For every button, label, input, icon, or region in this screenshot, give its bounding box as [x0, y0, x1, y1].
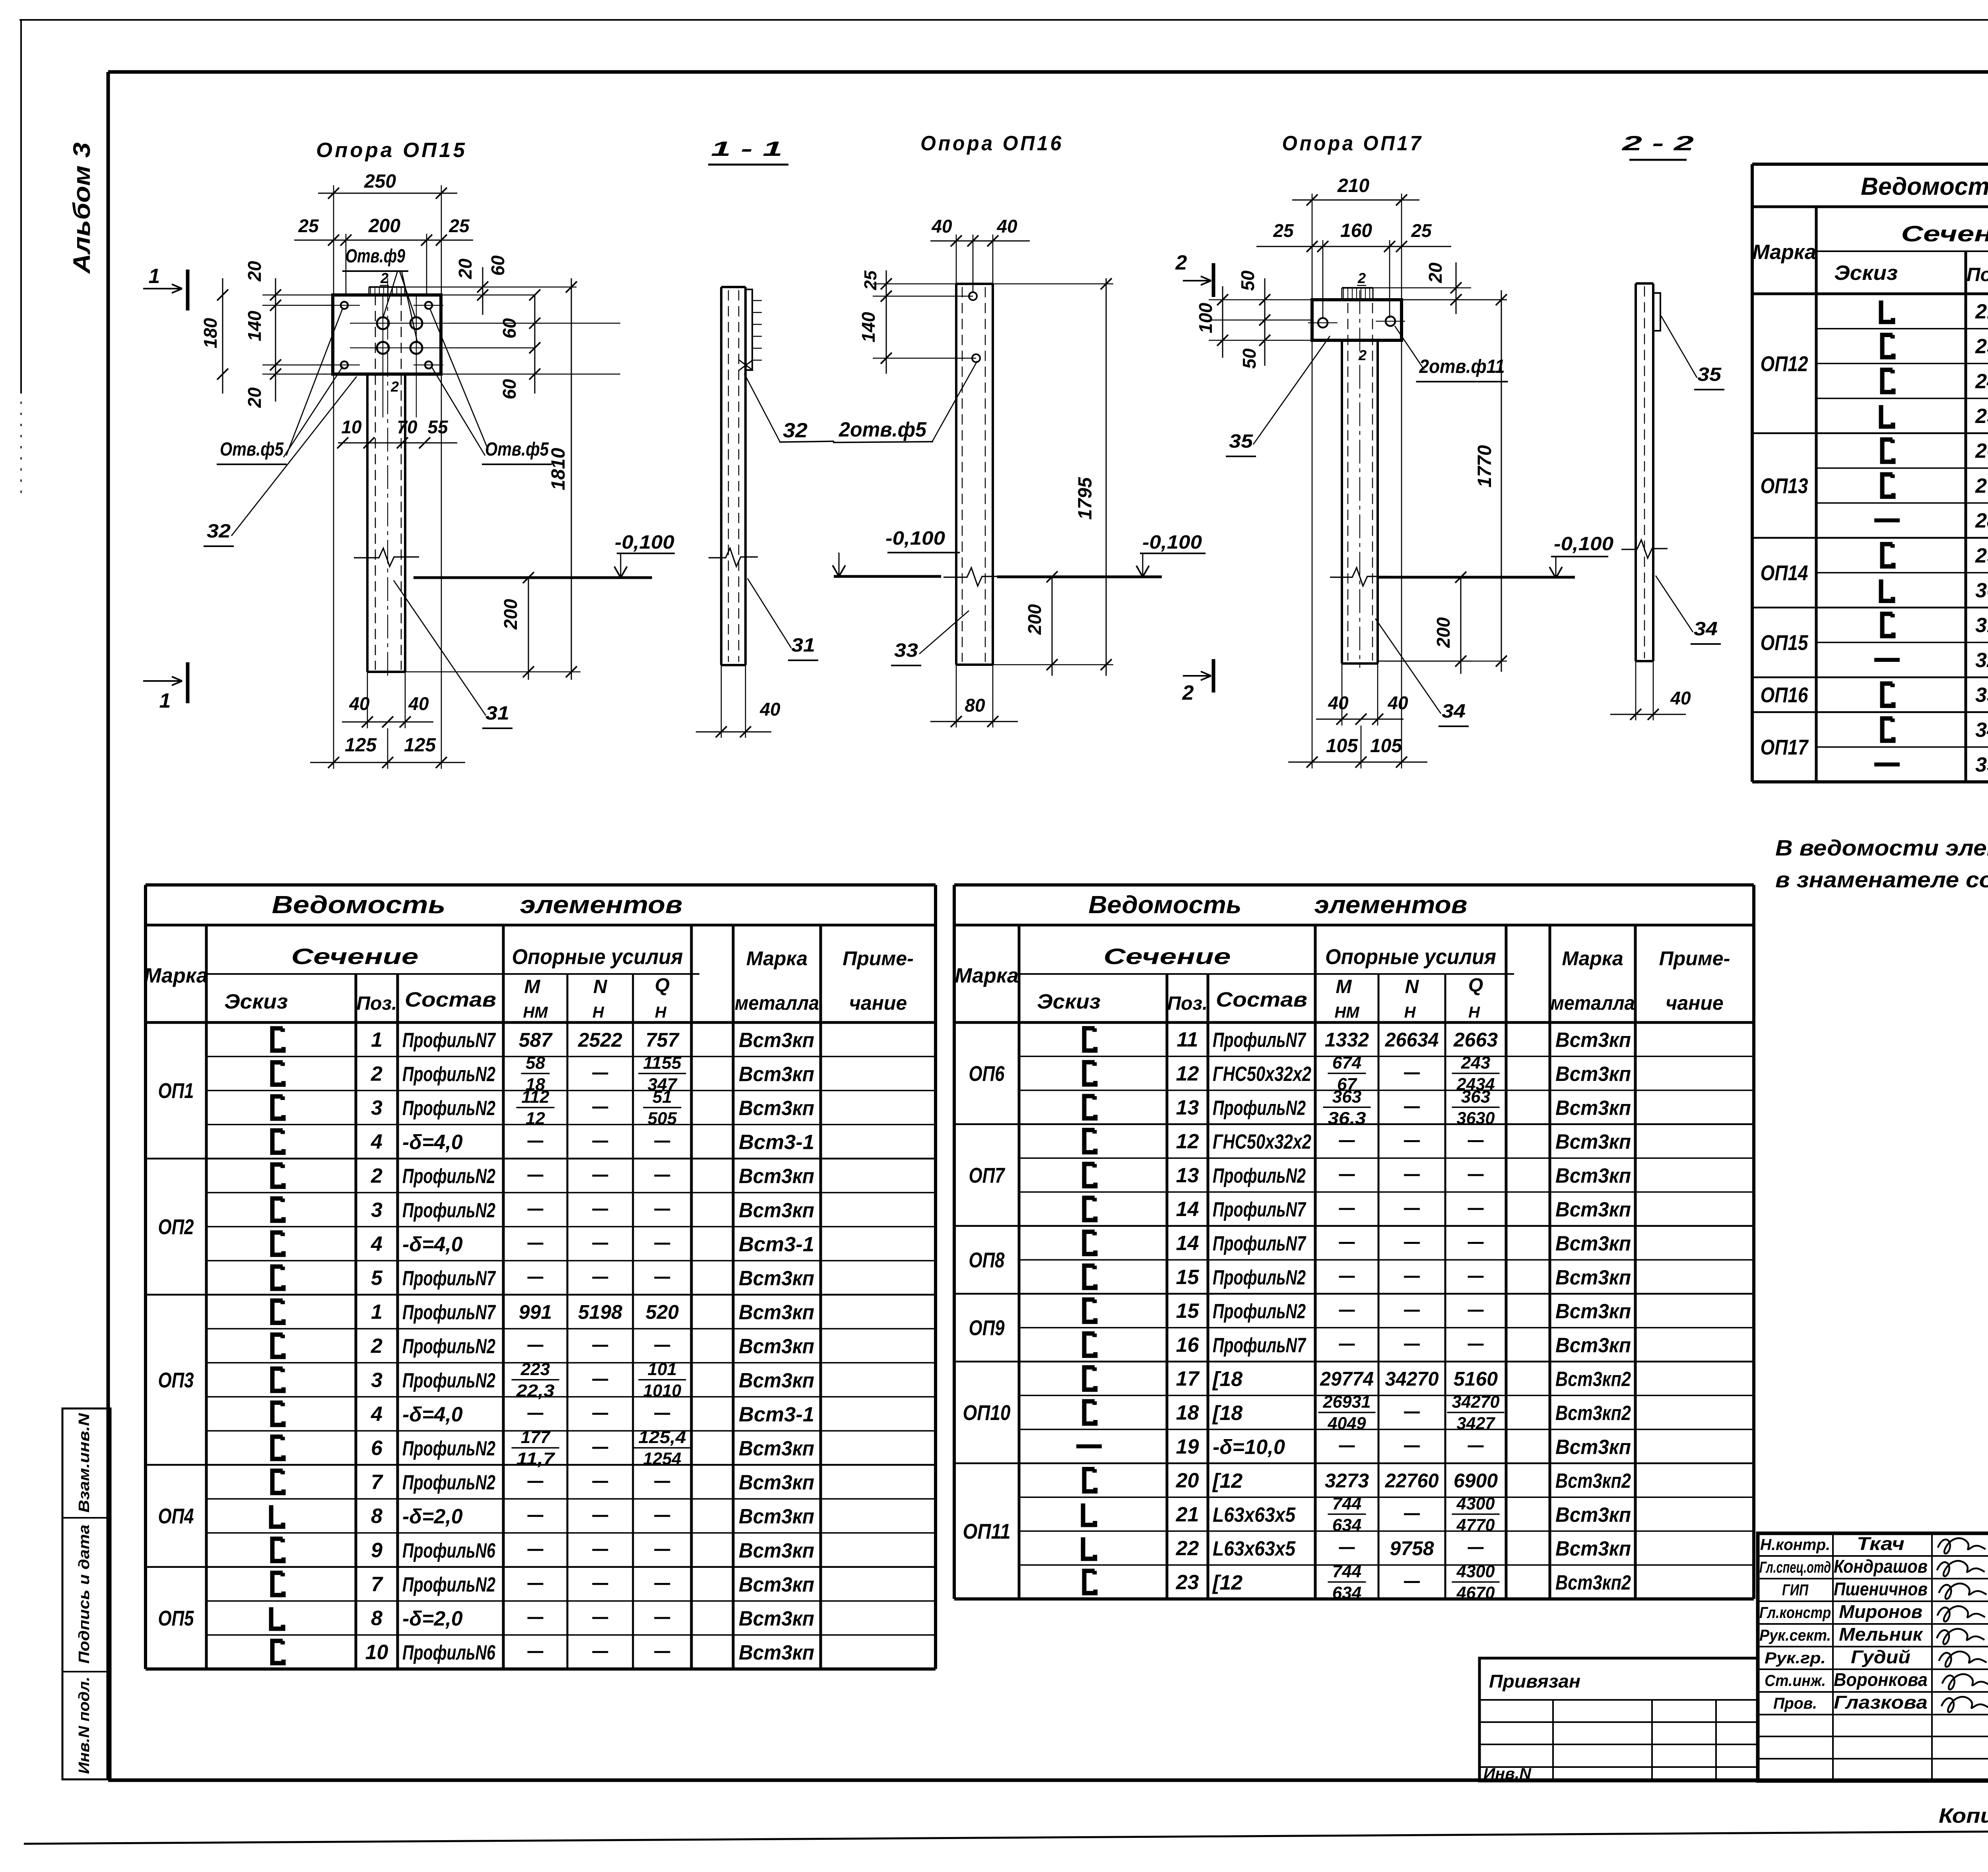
- svg-text:51: 51: [652, 1087, 672, 1107]
- svg-text:12: 12: [1176, 1130, 1199, 1153]
- svg-text:4: 4: [371, 1403, 382, 1426]
- svg-text:140: 140: [858, 312, 879, 342]
- table C row poz 32: [1816, 642, 1988, 672]
- svg-text:ОП6: ОП6: [969, 1062, 1005, 1086]
- support OP15 hole label Otv.f9 with leaders: [342, 246, 417, 343]
- svg-text:40: 40: [1387, 693, 1408, 713]
- svg-text:223: 223: [520, 1360, 550, 1379]
- svg-text:2: 2: [371, 1335, 382, 1358]
- section 2-2 flange tab: [1653, 293, 1660, 331]
- svg-text:ОП8: ОП8: [969, 1248, 1005, 1272]
- svg-text:7: 7: [371, 1471, 383, 1494]
- support OP15 break symbol: [354, 548, 419, 566]
- svg-text:Вст3кп: Вст3кп: [739, 1301, 814, 1324]
- svg-text:1 - 1: 1 - 1: [711, 138, 782, 161]
- table A row poz 4: [206, 1227, 936, 1256]
- svg-text:Эскиз: Эскиз: [224, 990, 288, 1013]
- svg-text:25: 25: [1975, 405, 1988, 428]
- svg-text:25: 25: [448, 215, 470, 236]
- svg-text:Опора ОП17: Опора ОП17: [1282, 132, 1423, 155]
- svg-text:Отв.ф9: Отв.ф9: [346, 246, 405, 267]
- svg-text:ОП13: ОП13: [1761, 474, 1808, 498]
- svg-text:32: 32: [783, 419, 808, 442]
- support OP15 part label 32: [204, 376, 357, 546]
- left margin stamp boxes: [62, 1408, 111, 1779]
- svg-text:31: 31: [485, 703, 509, 724]
- sheet outer border left: [20, 20, 22, 394]
- svg-text:1: 1: [371, 1028, 382, 1051]
- support OP17 part label 35: [1226, 336, 1330, 456]
- support OP15 small 2 labels: [380, 270, 399, 395]
- svg-text:чание: чание: [1666, 992, 1724, 1014]
- support OP15 right dim chain 60 60: [441, 289, 620, 400]
- table A row poz 9: [206, 1533, 936, 1562]
- table B row poz 14: [1084, 1232, 1631, 1255]
- svg-text:24: 24: [1975, 370, 1988, 393]
- stamp row Рук.гр.: [1765, 1647, 1988, 1667]
- sheet bottom copy line: [24, 1828, 1988, 1844]
- svg-text:2: 2: [1175, 251, 1187, 274]
- section 1-1 flange tab with weld ticks: [745, 289, 762, 370]
- svg-text:26931: 26931: [1323, 1392, 1371, 1412]
- support OP15 dim 10 70 55: [337, 417, 457, 448]
- svg-text:N: N: [593, 976, 608, 997]
- svg-text:34270: 34270: [1452, 1392, 1500, 1412]
- svg-text:Взам.инв.N: Взам.инв.N: [76, 1412, 93, 1513]
- support OP15 column top tab with hatch: [369, 287, 405, 295]
- table C header: [1752, 221, 1988, 293]
- table B frame: [954, 885, 1754, 1599]
- svg-text:-δ=4,0: -δ=4,0: [402, 1403, 463, 1426]
- support OP17 hidden edges: [1348, 303, 1373, 661]
- svg-text:Ведомость: Ведомость: [1861, 173, 1988, 200]
- table A row poz 7: [272, 1573, 814, 1596]
- svg-text:-δ=4,0: -δ=4,0: [402, 1131, 463, 1154]
- support OP15 dim 250: [318, 171, 457, 295]
- svg-text:200: 200: [1433, 617, 1454, 648]
- svg-text:1: 1: [159, 689, 171, 712]
- table A row poz 1: [272, 1028, 814, 1052]
- table A row poz 7: [272, 1471, 814, 1494]
- svg-text:металла: металла: [1551, 992, 1635, 1014]
- svg-text:10: 10: [341, 417, 362, 437]
- support OP17 small 2 labels: [1357, 270, 1367, 363]
- section 2-2 title: [1621, 132, 1694, 160]
- table B row poz 23: [1019, 1562, 1754, 1602]
- section 1-1 part label 31: [747, 578, 818, 660]
- svg-text:Гудий: Гудий: [1851, 1647, 1910, 1667]
- table B row poz 14: [1019, 1192, 1754, 1222]
- support OP15 bottom dim 125 125: [310, 374, 465, 769]
- table A header: [144, 944, 914, 1021]
- svg-text:31: 31: [1975, 614, 1988, 637]
- svg-text:ПрофильN2: ПрофильN2: [402, 1165, 495, 1188]
- table C group ОП12: [1761, 352, 1808, 376]
- svg-text:ПрофильN2: ПрофильN2: [402, 1199, 495, 1222]
- svg-text:757: 757: [646, 1029, 680, 1051]
- svg-text:Марка: Марка: [955, 964, 1019, 987]
- svg-text:Н: Н: [655, 1004, 667, 1021]
- table B row poz 16: [1019, 1328, 1754, 1357]
- svg-text:40: 40: [1670, 688, 1691, 708]
- svg-text:Сечение: Сечение: [291, 944, 419, 969]
- svg-text:Поз.: Поз.: [1967, 264, 1988, 285]
- svg-text:Мельник: Мельник: [1839, 1624, 1924, 1645]
- table C row poz 35: [1816, 747, 1988, 777]
- svg-text:Кондрашов: Кондрашов: [1834, 1556, 1928, 1577]
- stamp row ГИП: [1782, 1579, 1988, 1599]
- svg-text:10: 10: [365, 1641, 388, 1664]
- svg-text:2: 2: [371, 1062, 382, 1085]
- svg-text:ОП1: ОП1: [158, 1079, 194, 1103]
- support OP15 centerline: [387, 278, 388, 676]
- svg-text:25: 25: [298, 215, 319, 236]
- table A row poz 2: [272, 1164, 814, 1188]
- support OP15 part label 31: [394, 580, 513, 728]
- table C group ОП15: [1752, 607, 1988, 655]
- svg-text:1795: 1795: [1075, 477, 1096, 520]
- svg-text:Н: Н: [1468, 1004, 1480, 1021]
- svg-text:26: 26: [1975, 440, 1988, 463]
- svg-text:Вст3кп: Вст3кп: [1555, 1096, 1631, 1119]
- svg-text:3427: 3427: [1457, 1414, 1496, 1433]
- svg-text:29: 29: [1975, 544, 1988, 567]
- svg-text:21: 21: [1975, 300, 1988, 323]
- table B title: [1089, 891, 1468, 919]
- svg-text:ПрофильN7: ПрофильN7: [1213, 1198, 1307, 1221]
- svg-text:7: 7: [371, 1573, 383, 1596]
- svg-text:33: 33: [1975, 684, 1988, 707]
- svg-text:Вст3кп: Вст3кп: [739, 1097, 814, 1120]
- svg-text:ОП10: ОП10: [963, 1401, 1011, 1425]
- table C row poz 31: [1882, 614, 1988, 637]
- svg-text:210: 210: [1337, 175, 1369, 196]
- table C row poz 27: [1816, 468, 1988, 498]
- support OP15 dim 1810: [548, 278, 577, 680]
- table B header: [955, 944, 1730, 1021]
- table C group ОП13: [1752, 433, 1988, 498]
- svg-text:ОП16: ОП16: [1761, 683, 1809, 707]
- table C row poz 29: [1882, 544, 1988, 568]
- svg-text:Рук.гр.: Рук.гр.: [1765, 1649, 1826, 1667]
- svg-text:ПрофильN2: ПрофильN2: [402, 1437, 495, 1460]
- svg-text:Вст3кп: Вст3кп: [739, 1063, 814, 1086]
- support OP17 column top tab with hatch: [1342, 288, 1373, 300]
- svg-text:34270: 34270: [1385, 1368, 1439, 1390]
- privyazan box: [1479, 1658, 1758, 1782]
- svg-text:112: 112: [521, 1087, 549, 1107]
- svg-text:Вст3кп: Вст3кп: [739, 1369, 814, 1392]
- svg-text:3: 3: [371, 1369, 382, 1392]
- svg-text:20: 20: [244, 387, 265, 408]
- svg-text:363: 363: [1461, 1087, 1490, 1106]
- table B row poz 15: [1019, 1260, 1754, 1289]
- table B row poz 12: [1084, 1130, 1631, 1154]
- svg-text:1: 1: [371, 1301, 382, 1324]
- svg-text:3273: 3273: [1325, 1470, 1369, 1492]
- svg-text:чание: чание: [849, 992, 907, 1014]
- svg-text:Вст3кп: Вст3кп: [1555, 1436, 1631, 1459]
- svg-text:40: 40: [759, 699, 780, 720]
- svg-text:ПрофильN7: ПрофильN7: [402, 1301, 496, 1324]
- svg-text:23: 23: [1975, 335, 1988, 358]
- support OP17 part label 34: [1375, 619, 1469, 726]
- svg-text:Пшеничнов: Пшеничнов: [1834, 1579, 1928, 1599]
- svg-text:25: 25: [861, 270, 880, 290]
- support OP17 break symbol: [1330, 568, 1390, 586]
- svg-text:-δ=4,0: -δ=4,0: [402, 1233, 463, 1256]
- svg-text:Вст3-1: Вст3-1: [739, 1233, 814, 1256]
- svg-text:ПрофильN2: ПрофильN2: [402, 1573, 495, 1596]
- table A row poz 3: [206, 1193, 936, 1222]
- support OP16 left dim chain 25 140: [858, 270, 976, 374]
- svg-text:15: 15: [1176, 1266, 1200, 1289]
- svg-text:100: 100: [1195, 303, 1216, 333]
- svg-text:6900: 6900: [1454, 1470, 1498, 1492]
- table B group ОП11: [954, 1463, 1754, 1544]
- table C row poz 30: [1816, 570, 1988, 611]
- svg-text:Вст3кп: Вст3кп: [1555, 1503, 1631, 1527]
- table C row poz 25: [1816, 398, 1988, 428]
- svg-text:Вст3кп: Вст3кп: [1555, 1537, 1631, 1560]
- section 1-1 dim 40: [696, 665, 780, 738]
- svg-text:Q: Q: [1468, 975, 1483, 996]
- support OP15 column hidden edges: [375, 295, 401, 670]
- support OP17 centerline: [1359, 290, 1360, 668]
- svg-text:Поз.: Поз.: [357, 993, 397, 1014]
- support OP15 ground line: [414, 576, 652, 579]
- support OP15 left dim chain 20 140 20: [244, 261, 333, 408]
- table C row poz 33: [1882, 684, 1988, 707]
- svg-text:Подпись и дата: Подпись и дата: [76, 1525, 93, 1664]
- svg-text:12: 12: [526, 1109, 545, 1128]
- title block stamp frame: [1758, 1533, 1988, 1781]
- svg-text:ГНС50x32x2: ГНС50x32x2: [1213, 1131, 1311, 1154]
- svg-text:Вст3кп: Вст3кп: [739, 1029, 814, 1052]
- svg-text:ПрофильN7: ПрофильN7: [1213, 1029, 1307, 1052]
- svg-text:элементов: элементов: [520, 891, 683, 919]
- svg-text:32: 32: [1975, 649, 1988, 672]
- svg-text:ГНС50x32x2: ГНС50x32x2: [1213, 1063, 1311, 1086]
- table A group ОП1: [158, 1079, 194, 1103]
- svg-text:L63x63x5: L63x63x5: [1213, 1537, 1296, 1560]
- svg-text:11: 11: [1177, 1028, 1198, 1051]
- svg-text:ПрофильN6: ПрофильN6: [402, 1641, 496, 1664]
- svg-text:Гл.спец.отд: Гл.спец.отд: [1759, 1559, 1831, 1576]
- svg-text:40: 40: [996, 216, 1017, 237]
- table C frame: [1752, 164, 1988, 782]
- svg-text:21: 21: [1176, 1503, 1199, 1526]
- svg-text:50: 50: [1237, 270, 1258, 291]
- svg-text:-0,100: -0,100: [885, 528, 945, 549]
- table B row poz 13: [1019, 1087, 1754, 1128]
- table A row poz 8: [206, 1601, 936, 1630]
- stamp row Гл.констр: [1759, 1601, 1988, 1622]
- svg-text:22,3: 22,3: [516, 1381, 554, 1401]
- table A group ОП3: [146, 1295, 936, 1392]
- table C row poz 23: [1816, 326, 1988, 367]
- svg-text:60: 60: [499, 379, 520, 400]
- svg-text:Ст.инж.: Ст.инж.: [1765, 1672, 1826, 1690]
- svg-text:ОП11: ОП11: [963, 1520, 1011, 1544]
- svg-text:744: 744: [1332, 1562, 1361, 1581]
- svg-text:Ведомость: Ведомость: [1089, 891, 1242, 919]
- svg-text:30: 30: [1975, 579, 1988, 602]
- support OP17 cross plate: [1312, 300, 1402, 340]
- svg-text:200: 200: [368, 215, 400, 237]
- svg-text:Марка: Марка: [144, 964, 208, 987]
- section 1-1 ground line: [834, 575, 941, 578]
- table B row poz 17: [1084, 1368, 1631, 1391]
- stamp row Рук.сект.: [1759, 1624, 1988, 1645]
- svg-text:1155: 1155: [643, 1053, 682, 1073]
- section 1-1 break symbol: [709, 548, 758, 566]
- svg-text:2: 2: [1357, 270, 1366, 286]
- svg-text:991: 991: [519, 1301, 552, 1323]
- svg-text:Вст3кп: Вст3кп: [1555, 1198, 1631, 1221]
- table C row poz 24: [1816, 363, 1988, 393]
- svg-text:Вст3кп: Вст3кп: [1555, 1300, 1631, 1323]
- support OP15 hole label Otv.f5 right: [430, 309, 552, 464]
- support OP16 top dim 40 40: [930, 216, 1030, 292]
- svg-text:ПрофильN2: ПрофильN2: [1213, 1164, 1306, 1187]
- svg-text:125,4: 125,4: [639, 1428, 686, 1447]
- table A row poz 6: [206, 1428, 936, 1469]
- svg-text:ОП9: ОП9: [969, 1316, 1005, 1340]
- support OP15 dim 180: [200, 278, 228, 394]
- support OP16 break symbol: [944, 568, 1006, 586]
- svg-text:20: 20: [244, 261, 265, 282]
- svg-text:Приме-: Приме-: [1659, 947, 1730, 970]
- support OP16 part label 33: [891, 611, 969, 665]
- svg-text:1770: 1770: [1474, 445, 1495, 487]
- svg-text:3: 3: [371, 1199, 382, 1222]
- support OP17 dim 210: [1292, 175, 1419, 300]
- table C group ОП17: [1752, 712, 1988, 759]
- svg-text:Ведомость: Ведомость: [272, 891, 446, 919]
- support OP16 column: [956, 284, 993, 665]
- svg-text:8: 8: [371, 1607, 382, 1630]
- svg-text:ПрофильN7: ПрофильN7: [1213, 1232, 1307, 1255]
- svg-text:Отв.ф5: Отв.ф5: [485, 439, 549, 460]
- svg-text:15: 15: [1176, 1300, 1200, 1323]
- svg-text:ПрофильN7: ПрофильN7: [402, 1029, 496, 1052]
- support OP17 dim 1770: [1378, 290, 1507, 672]
- svg-text:Вст3-1: Вст3-1: [739, 1403, 814, 1426]
- svg-text:25: 25: [1411, 220, 1432, 241]
- svg-text:13: 13: [1176, 1096, 1199, 1119]
- svg-text:40: 40: [1328, 693, 1349, 713]
- svg-text:Вст3кп: Вст3кп: [739, 1641, 814, 1664]
- table A row poz 1: [272, 1301, 814, 1324]
- section 2-2 column bar: [1636, 283, 1653, 661]
- svg-text:140: 140: [244, 310, 265, 341]
- svg-text:Глазкова: Глазкова: [1834, 1692, 1928, 1713]
- table B row poz 13: [1019, 1158, 1754, 1187]
- svg-text:ПрофильN2: ПрофильN2: [402, 1369, 495, 1392]
- section 2-2 break symbol: [1621, 540, 1668, 558]
- svg-text:М: М: [524, 976, 541, 997]
- svg-text:2отв.ф5: 2отв.ф5: [839, 418, 927, 441]
- support OP15 small holes f5: [326, 302, 443, 369]
- svg-text:Вст3кп: Вст3кп: [1555, 1029, 1631, 1052]
- svg-text:Н: Н: [592, 1004, 604, 1021]
- svg-text:200: 200: [500, 599, 521, 630]
- table A frame: [146, 885, 936, 1669]
- svg-text:-δ=2,0: -δ=2,0: [402, 1505, 463, 1528]
- table C row poz 26: [1882, 440, 1988, 463]
- table B row poz 19: [1019, 1430, 1754, 1459]
- svg-text:Сечение: Сечение: [1901, 221, 1988, 246]
- section 1-1 part label 32: [739, 360, 834, 442]
- stamp signature rows grid: [1758, 1533, 1988, 1781]
- support OP17 left dim chain 50 100 50: [1195, 270, 1312, 369]
- svg-text:34: 34: [1442, 701, 1466, 722]
- svg-text:Вст3кп2: Вст3кп2: [1555, 1571, 1631, 1594]
- svg-text:28: 28: [1975, 509, 1988, 532]
- support OP17 bottom dim 40 40: [1316, 663, 1408, 726]
- table A group ОП2: [146, 1158, 936, 1239]
- svg-text:18: 18: [1176, 1401, 1199, 1424]
- svg-text:N: N: [1405, 976, 1419, 997]
- svg-text:4300: 4300: [1456, 1562, 1495, 1581]
- svg-text:ОП7: ОП7: [969, 1164, 1006, 1187]
- svg-text:520: 520: [646, 1301, 679, 1323]
- svg-text:Инв.N подл.: Инв.N подл.: [76, 1677, 93, 1774]
- svg-text:Гл.констр: Гл.констр: [1759, 1604, 1831, 1622]
- table A group ОП4: [146, 1465, 936, 1528]
- svg-text:5160: 5160: [1454, 1368, 1498, 1390]
- svg-text:80: 80: [965, 695, 985, 716]
- svg-text:60: 60: [487, 255, 508, 276]
- svg-text:50: 50: [1239, 348, 1260, 369]
- table A row poz 10: [206, 1635, 936, 1664]
- svg-text:Поз.: Поз.: [1167, 993, 1208, 1014]
- svg-text:Вст3кп: Вст3кп: [1555, 1232, 1631, 1255]
- svg-text:ОП3: ОП3: [158, 1368, 194, 1392]
- table A row poz 4: [206, 1397, 936, 1426]
- svg-text:Эскиз: Эскиз: [1037, 990, 1101, 1013]
- table B row poz 11: [1084, 1028, 1631, 1052]
- svg-text:40: 40: [931, 216, 952, 237]
- svg-text:В ведомости элементов в числит: В ведомости элементов в числителе даны з…: [1775, 835, 1988, 860]
- svg-text:Вст3кп: Вст3кп: [739, 1437, 814, 1460]
- support OP17 dim 25 160 25: [1256, 220, 1451, 318]
- svg-text:Состав: Состав: [1216, 988, 1307, 1011]
- svg-text:58: 58: [526, 1053, 545, 1073]
- svg-text:Опорные усилия: Опорные усилия: [1325, 945, 1496, 969]
- svg-text:[18: [18: [1212, 1368, 1242, 1391]
- svg-text:587: 587: [519, 1029, 553, 1051]
- svg-text:ГИП: ГИП: [1782, 1581, 1809, 1599]
- support OP15 dim 200: [405, 572, 580, 680]
- svg-text:9758: 9758: [1390, 1537, 1434, 1560]
- svg-text:5: 5: [371, 1267, 383, 1290]
- svg-text:Вст3кп: Вст3кп: [739, 1471, 814, 1494]
- svg-text:Альбом 3: Альбом 3: [68, 142, 95, 274]
- svg-text:Рук.сект.: Рук.сект.: [1759, 1627, 1831, 1644]
- svg-text:Марка: Марка: [1752, 241, 1816, 264]
- table B row poz 15: [1084, 1300, 1631, 1323]
- svg-text:Вст3кп: Вст3кп: [1555, 1266, 1631, 1289]
- svg-text:Приме-: Приме-: [843, 947, 914, 970]
- support OP16 dim 200: [993, 571, 1113, 676]
- svg-text:Вст3кп: Вст3кп: [739, 1573, 814, 1596]
- svg-text:Вст3кп: Вст3кп: [739, 1335, 814, 1358]
- svg-text:105: 105: [1370, 735, 1402, 757]
- table B group ОП9: [954, 1294, 1754, 1340]
- table A row poz 5: [206, 1261, 936, 1290]
